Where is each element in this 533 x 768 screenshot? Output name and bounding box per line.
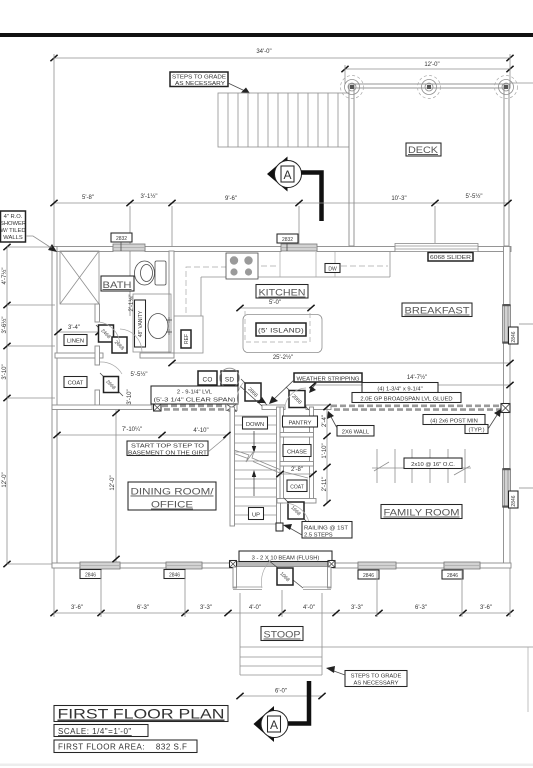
svg-text:2'-4": 2'-4" (322, 415, 328, 427)
svg-text:2x10 @ 16" O.C.: 2x10 @ 16" O.C. (411, 462, 455, 468)
note box LVL clear span (151, 386, 238, 404)
door tag 1068 front (277, 568, 293, 585)
smoke detector tag SD (220, 368, 240, 388)
svg-text:FAMILY ROOM: FAMILY ROOM (384, 508, 460, 519)
svg-text:2832: 2832 (282, 237, 293, 243)
vanity (133, 294, 172, 352)
svg-text:REF: REF (184, 334, 190, 344)
svg-text:12'-0": 12'-0" (2, 472, 8, 487)
front door arc (261, 560, 271, 588)
note box: 4" R.O. shower (0, 211, 57, 252)
window 2846 right wall (family) (503, 468, 533, 508)
dim 34'-0" top (50, 49, 513, 61)
svg-text:FIRST FLOOR PLAN: FIRST FLOOR PLAN (58, 706, 225, 722)
svg-text:12'-0": 12'-0" (110, 475, 116, 490)
svg-text:BREAKFAST: BREAKFAST (405, 306, 470, 317)
window 2846 right wall (breakfast) (503, 304, 533, 344)
bath east wall (169, 251, 174, 353)
svg-text:DW: DW (328, 267, 337, 273)
kitchen upper cabinets dashed (186, 266, 388, 313)
svg-text:3 - 2 X 10 BEAM (FLUSH): 3 - 2 X 10 BEAM (FLUSH) (252, 556, 320, 562)
svg-text:3'-1½": 3'-1½" (141, 193, 158, 200)
svg-text:SD: SD (225, 377, 234, 384)
svg-text:2846: 2846 (511, 495, 517, 506)
hall top wall segments (226, 405, 237, 411)
svg-text:2846: 2846 (511, 331, 517, 342)
grade line right of stoop (322, 646, 533, 648)
svg-text:2'-11": 2'-11" (322, 477, 328, 492)
toilet (135, 261, 167, 285)
title area (54, 740, 197, 753)
shower (60, 251, 99, 304)
svg-text:3'-10": 3'-10" (2, 364, 8, 379)
note box WEATHER STRIPPING (269, 373, 362, 404)
dim row y203: 5'-8" / 3'-1.5" / 9'-6" / 10'-3" / 5'-5.5" (50, 193, 511, 206)
window 2846 bottom #3 (358, 562, 396, 579)
svg-text:3'-3": 3'-3" (200, 605, 212, 611)
window 2846 bottom #1 (80, 562, 120, 579)
window 6068 slider (395, 244, 478, 262)
dim 7'-10 1/4" / 4'-10" (53, 427, 230, 438)
svg-text:3'-4": 3'-4" (68, 325, 80, 331)
door tag 2668 bath (112, 337, 127, 353)
svg-text:BATH: BATH (103, 280, 132, 291)
svg-text:6'-3": 6'-3" (415, 605, 427, 611)
svg-text:4'-0": 4'-0" (303, 605, 315, 611)
svg-text:2'-8": 2'-8" (291, 467, 303, 473)
svg-text:2832: 2832 (116, 236, 127, 242)
svg-text:4" R.O.: 4" R.O. (4, 214, 23, 220)
svg-text:14'-7½": 14'-7½" (407, 374, 427, 381)
family room joists 2x10 (372, 449, 471, 483)
svg-text:4'-10": 4'-10" (193, 428, 208, 434)
closet divider 1 (280, 433, 314, 438)
room label KITCHEN (256, 285, 308, 299)
svg-text:STEPS TO GRADE: STEPS TO GRADE (351, 674, 402, 680)
svg-text:2846: 2846 (85, 573, 96, 579)
svg-text:WALLS: WALLS (3, 235, 23, 241)
svg-text:3'-6½": 3'-6½" (1, 317, 8, 334)
svg-text:STOOP: STOOP (264, 630, 301, 641)
stoop outline (240, 593, 322, 675)
svg-text:(5' ISLAND): (5' ISLAND) (258, 328, 304, 335)
closet left wall (280, 407, 284, 503)
closet label COAT2 (287, 480, 307, 492)
window 2846 bottom #2 (164, 562, 202, 579)
svg-text:CHASE: CHASE (287, 450, 307, 456)
closet label PANTRY (283, 416, 318, 427)
svg-text:2.5 STEPS: 2.5 STEPS (304, 533, 333, 539)
svg-text:STEPS TO GRADE: STEPS TO GRADE (172, 75, 226, 81)
svg-text:CO: CO (203, 377, 213, 384)
note box (4) 1-3/4 x 9-1/4 (362, 383, 438, 393)
door tag 2068 pantry (286, 387, 309, 410)
basement door leaf + arrow (240, 386, 262, 406)
svg-text:(4) 1-3/4" x 9-1/4": (4) 1-3/4" x 9-1/4" (377, 387, 422, 393)
insulated 2x6 wall hatch (331, 406, 501, 410)
svg-text:1'-10": 1'-10" (322, 443, 328, 458)
stair left wall (230, 407, 235, 526)
deck stairs (steps to grade) (218, 93, 349, 147)
svg-text:2 - 9-1/4" LVL: 2 - 9-1/4" LVL (177, 390, 213, 396)
svg-text:3'-10": 3'-10" (127, 389, 133, 404)
note box 2X6 WALL (327, 411, 374, 436)
closet divider 2 (280, 462, 314, 467)
stair arrows (253, 431, 255, 448)
room label DINING ROOM/OFFICE (128, 482, 216, 511)
dim 2'-8" (276, 467, 316, 477)
svg-text:5'-5½": 5'-5½" (466, 193, 483, 200)
interior dim 12'-0" dining (110, 410, 120, 562)
svg-text:2'-1⅛": 2'-1⅛" (129, 295, 135, 312)
deck post mid (418, 76, 441, 99)
svg-text:PANTRY: PANTRY (289, 421, 312, 427)
stoop recess walls (233, 567, 331, 590)
dim 6'-0" stoop (236, 689, 325, 700)
svg-text:4'-7½": 4'-7½" (1, 268, 8, 285)
svg-text:10'-3": 10'-3" (391, 196, 406, 202)
joist label 2x10 16 OC (404, 458, 462, 469)
room label DECK (406, 143, 441, 156)
svg-text:FIRST FLOOR AREA: 832 S.F: FIRST FLOOR AREA: 832 S.F (58, 743, 187, 752)
smoke detector tag CO (198, 371, 217, 385)
svg-text:W/ TILED: W/ TILED (0, 228, 25, 234)
svg-text:A: A (283, 168, 291, 182)
dim 14'-7 1/2" (309, 374, 513, 388)
svg-text:BASEMENT ON THE GIRT: BASEMENT ON THE GIRT (128, 451, 208, 457)
closet bottom wall (277, 499, 316, 504)
svg-text:RAILING @ 1ST: RAILING @ 1ST (304, 526, 348, 532)
deck post right (495, 76, 518, 99)
stair label UP (249, 508, 264, 520)
title scale (54, 725, 148, 737)
bottom dim row (50, 605, 513, 616)
house left wall (52, 247, 57, 568)
svg-text:5'-0": 5'-0" (269, 300, 281, 306)
house bottom wall segments (52, 563, 80, 568)
dim 12'-0" deck (341, 62, 513, 72)
coat2 door arc (283, 503, 309, 522)
svg-text:5'-8": 5'-8" (82, 195, 94, 201)
dim 25'-2 1/2" (168, 354, 513, 366)
wall end post X (right) (501, 404, 510, 413)
bath door arc (120, 329, 142, 352)
section marker A (bottom) (254, 681, 310, 742)
svg-text:WEATHER STRIPPING: WEATHER STRIPPING (297, 377, 360, 383)
svg-text:4'-0": 4'-0" (249, 605, 261, 611)
window 2832 #2 top wall (277, 234, 317, 251)
note box: steps to grade (top) (170, 72, 250, 94)
svg-text:25'-2½": 25'-2½" (273, 354, 293, 361)
svg-text:9'-6": 9'-6" (225, 196, 237, 202)
svg-text:12'-0": 12'-0" (424, 62, 439, 68)
note box RAILING (283, 522, 352, 539)
stair treads (235, 416, 277, 524)
svg-text:(4) 2x6 POST MIN: (4) 2x6 POST MIN (430, 419, 478, 425)
closet label CHASE (283, 445, 311, 457)
svg-text:3'-6": 3'-6" (71, 605, 83, 611)
svg-text:DOWN: DOWN (246, 422, 264, 428)
svg-text:2846: 2846 (363, 573, 374, 579)
deck left wall (349, 84, 354, 246)
vertical dim chain x327 (322, 404, 331, 506)
svg-text:6'-3": 6'-3" (137, 605, 149, 611)
deck post left (341, 76, 364, 99)
svg-text:6'-0": 6'-0" (275, 689, 287, 695)
svg-text:LINEN: LINEN (67, 339, 84, 345)
kitchen counter front edge (201, 252, 390, 316)
bath/linen bottom wall (55, 353, 103, 358)
stoop steps (240, 647, 322, 675)
DW dishwasher tag (325, 264, 340, 273)
closet east wall (95, 304, 100, 322)
window 2832 #1 top wall (111, 233, 145, 251)
stair right stringer (277, 407, 281, 524)
svg-text:7'-10¼": 7'-10¼" (122, 427, 142, 433)
deck right wall (504, 84, 509, 246)
svg-text:OFFICE: OFFICE (151, 500, 193, 511)
linen door arc (99, 322, 120, 345)
closet label LINEN (64, 335, 87, 346)
svg-text:COAT: COAT (68, 381, 84, 387)
door tag 2868 basement (241, 379, 267, 405)
section marker A (top) (267, 157, 322, 222)
note box START TOP STEP (127, 437, 226, 457)
svg-text:48" VANITY: 48" VANITY (138, 310, 144, 337)
note box 4 2x6 POST MIN (423, 409, 501, 434)
coat bottom / dining top wall (52, 405, 152, 410)
dim 5'-0" island (236, 300, 314, 311)
beam 3-2x10 flush (230, 551, 336, 568)
extension lines top (53, 54, 55, 247)
front door leaf (268, 560, 303, 588)
svg-text:A: A (270, 718, 278, 732)
dim 3'-4" linen (54, 325, 102, 335)
svg-text:6068 SLIDER: 6068 SLIDER (430, 255, 472, 261)
note box steps to grade (bottom) (326, 666, 407, 687)
pantry door arc (285, 388, 306, 406)
bottom extension lines (54, 568, 510, 617)
svg-text:2.0E GP BROADSPAN LVL GLUED: 2.0E GP BROADSPAN LVL GLUED (360, 397, 452, 403)
kitchen island (243, 311, 322, 353)
room label BREAKFAST (402, 303, 472, 317)
room label FAMILY ROOM (381, 505, 462, 519)
svg-text:34'-0": 34'-0" (256, 49, 271, 55)
room label STOOP (261, 627, 303, 641)
door tag 2668 coat (100, 373, 123, 396)
svg-text:SCALE: 1/4"=1'-0": SCALE: 1/4"=1'-0" (58, 727, 132, 736)
svg-text:3'-3": 3'-3" (351, 605, 363, 611)
closet label COAT (64, 377, 87, 388)
page edge shading (0, 764, 533, 767)
thick top border line (0, 33, 533, 37)
extension lines row y203 (129, 206, 131, 316)
house top wall segments (52, 247, 113, 252)
svg-text:COAT: COAT (290, 485, 304, 491)
left dim chain (1, 244, 55, 567)
svg-text:3'-6": 3'-6" (480, 605, 492, 611)
room label BATH (101, 276, 134, 291)
svg-text:DECK: DECK (408, 145, 439, 156)
stair label DOWN (243, 417, 268, 429)
stove (226, 253, 258, 279)
door tag 2468 linen (96, 325, 119, 349)
svg-text:5'-5½": 5'-5½" (131, 371, 148, 378)
svg-text:2846: 2846 (447, 573, 458, 579)
svg-text:START TOP STEP TO: START TOP STEP TO (131, 444, 205, 450)
svg-text:KITCHEN: KITCHEN (259, 288, 306, 299)
svg-text:(5'-3 1/4" CLEAR SPAN): (5'-3 1/4" CLEAR SPAN) (154, 398, 236, 404)
svg-text:2846: 2846 (169, 573, 180, 579)
title FIRST FLOOR PLAN (54, 706, 228, 722)
closet right wall (310, 407, 314, 503)
svg-text:DINING ROOM/: DINING ROOM/ (131, 487, 214, 498)
refrigerator box (174, 316, 203, 353)
svg-text:2X6 WALL: 2X6 WALL (342, 430, 370, 436)
svg-text:AS NECESSARY: AS NECESSARY (175, 81, 225, 87)
stair bottom post (276, 523, 283, 531)
svg-text:SHOWER: SHOWER (0, 221, 26, 227)
deck top wall (349, 84, 510, 88)
house right wall segments (504, 247, 511, 306)
coat door arc (100, 362, 122, 374)
stair break line (234, 450, 281, 470)
svg-text:UP: UP (252, 513, 260, 519)
door tag 1668 coat2 (284, 498, 307, 522)
window 2846 bottom #4 (442, 562, 480, 579)
note box 2.0E GP BROADSPAN (352, 393, 461, 403)
svg-text:(TYP.): (TYP.) (469, 428, 485, 434)
svg-text:AS NECESSARY: AS NECESSARY (354, 681, 399, 687)
